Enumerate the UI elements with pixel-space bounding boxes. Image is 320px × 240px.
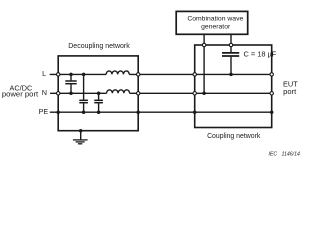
- svg-text:port: port: [283, 87, 297, 96]
- coupling network box: [195, 45, 272, 140]
- wire L line left of coil: [50, 73, 106, 75]
- wire N line left of coil: [50, 92, 107, 94]
- junction dot PE decoupling left edge: [56, 110, 60, 114]
- svg-text:N: N: [42, 88, 47, 97]
- terminal circle decoupling left L: [57, 73, 60, 76]
- junction dot PE C2: [82, 110, 86, 114]
- junction dot PE decoupling right edge: [136, 110, 140, 114]
- svg-text:Decoupling network: Decoupling network: [68, 43, 130, 50]
- svg-text:power port: power port: [2, 89, 39, 98]
- terminal circle coupling left N: [193, 92, 196, 95]
- wire PE line: [50, 111, 272, 113]
- terminal circle decoupling right N: [137, 92, 140, 95]
- junction dot PE coupling left edge: [193, 110, 197, 114]
- svg-text:PE: PE: [39, 107, 49, 116]
- decoupling network box: [58, 43, 138, 131]
- svg-text:Coupling network: Coupling network: [207, 133, 261, 140]
- combination wave generator U1: [176, 11, 248, 34]
- svg-text:IEC 1146/14: IEC 1146/14: [269, 152, 300, 158]
- capacitor C3 (N to PE): [94, 93, 103, 112]
- ground: [73, 131, 88, 144]
- port label AC/DC power port: [2, 84, 39, 99]
- inductor L1 (L line): [106, 71, 129, 74]
- terminal circle coupling right N EUT: [270, 92, 273, 95]
- junction dot ground stub: [79, 129, 83, 133]
- junction dot PE C3: [97, 110, 101, 114]
- terminal circle coupling right L EUT: [270, 73, 273, 76]
- junction dot N generator wire: [202, 92, 206, 96]
- port label EUT port: [283, 80, 298, 96]
- junction dot PE coupling right edge: [270, 110, 274, 114]
- wire L line right of coil: [129, 73, 272, 75]
- svg-text:generator: generator: [201, 23, 231, 30]
- wire N line right of coil: [130, 92, 272, 94]
- junction dot N C3: [97, 92, 101, 96]
- junction dot N C1: [69, 92, 73, 96]
- svg-text:C = 18 µF: C = 18 µF: [244, 50, 277, 59]
- svg-text:L: L: [42, 69, 46, 78]
- terminal circle coupling top generator left: [202, 43, 205, 46]
- junction dot L C4: [229, 73, 233, 77]
- terminal circle decoupling right L: [137, 73, 140, 76]
- capacitor C2 (L to PE): [79, 74, 88, 112]
- junction dot L C2: [82, 73, 86, 77]
- terminal circle coupling top generator right: [229, 43, 232, 46]
- junction dot L C1: [69, 73, 73, 77]
- capacitor C4 (C = 18 uF): [222, 34, 277, 74]
- terminal circle decoupling left N: [57, 92, 60, 95]
- wire generator left terminal to N: [203, 34, 205, 93]
- capacitor C1 (L to N): [65, 74, 76, 93]
- terminal circle coupling left L: [193, 73, 196, 76]
- inductor L2 (N line): [107, 90, 130, 94]
- svg-text:Combination wave: Combination wave: [187, 15, 243, 22]
